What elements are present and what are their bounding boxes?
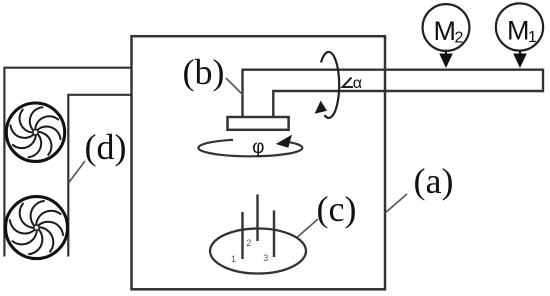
pin 3 [273, 211, 275, 258]
svg-text:2: 2 [455, 30, 464, 47]
pump duct inner wall [68, 95, 131, 257]
alpha rotation arrowhead [315, 101, 327, 114]
pin 2 [256, 195, 258, 242]
motor M1 circle [496, 3, 543, 50]
svg-text:1: 1 [231, 254, 236, 264]
manipulator arm / bar with elbow rod [243, 70, 544, 117]
svg-text:2: 2 [246, 238, 251, 248]
leader line for (a) [385, 194, 407, 213]
svg-text:(d): (d) [85, 127, 127, 167]
pin 1 [241, 212, 243, 259]
substrate holder plate (b) [228, 117, 289, 130]
svg-text:1: 1 [528, 29, 537, 46]
motor M2 circle [423, 4, 470, 51]
sample stage ellipse (c) [210, 229, 306, 274]
angle symbol [343, 78, 354, 88]
svg-text:(b): (b) [183, 52, 225, 92]
leader line for (d) [69, 161, 86, 183]
leader line for (b) [226, 78, 243, 95]
vacuum chamber (a) box [132, 36, 386, 289]
pump duct outer wall [4, 68, 131, 257]
svg-text:φ: φ [252, 137, 264, 158]
motor M1 arrow [519, 50, 521, 58]
phi rotation arrowhead [276, 135, 292, 148]
leader line for (c) [298, 219, 319, 237]
svg-text:3: 3 [263, 253, 268, 263]
svg-text:(c): (c) [317, 189, 357, 229]
motor M2 arrow [445, 50, 447, 58]
phi rotation dish arc [198, 140, 302, 157]
fan pump 2 (bottom) [5, 196, 69, 260]
svg-text:α: α [353, 75, 362, 92]
svg-text:M: M [507, 16, 530, 46]
alpha rotation arc [321, 52, 339, 118]
svg-text:(a): (a) [414, 161, 454, 201]
svg-text:M: M [434, 16, 457, 46]
fan pump 1 (top) [5, 102, 65, 162]
